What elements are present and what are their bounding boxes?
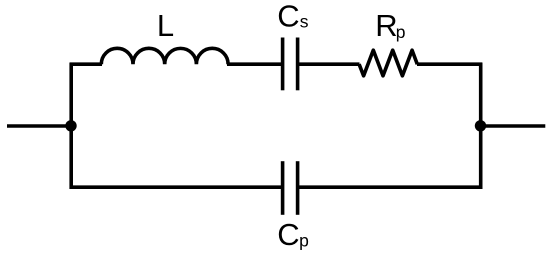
svg-text:R: R	[375, 8, 397, 43]
svg-text:L: L	[157, 8, 174, 43]
svg-text:C: C	[277, 217, 299, 252]
svg-text:C: C	[277, 0, 299, 34]
svg-text:p: p	[396, 22, 406, 42]
svg-text:s: s	[300, 11, 309, 31]
svg-text:p: p	[299, 231, 309, 251]
